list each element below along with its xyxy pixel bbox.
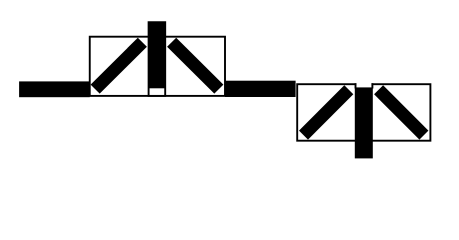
diagonal hatch bar B2-right (\) (374, 85, 428, 139)
connector body box B2 (297, 84, 430, 141)
plunger bar P2 right side stub (371, 83, 373, 88)
plunger bar P1 black fill (extends above box) (148, 22, 166, 89)
connector body box B1 (90, 37, 225, 96)
plunger bar P2 white notch gap (interrupts box top line) (356, 76, 371, 87)
plunger bar P2 left side stub (355, 83, 357, 88)
left lead bar W1 (19, 81, 90, 97)
diagonal hatch bar B1-right (\) (167, 38, 223, 94)
middle lead bar W2 (225, 81, 296, 97)
diagonal hatch bar B2-left (/) (299, 85, 353, 139)
diagonal hatch bar B1-left (/) (91, 38, 147, 94)
plunger bar P1 outline (white notch at bottom) (149, 22, 166, 96)
plunger bar P2 black fill (extends below box) (355, 87, 373, 158)
